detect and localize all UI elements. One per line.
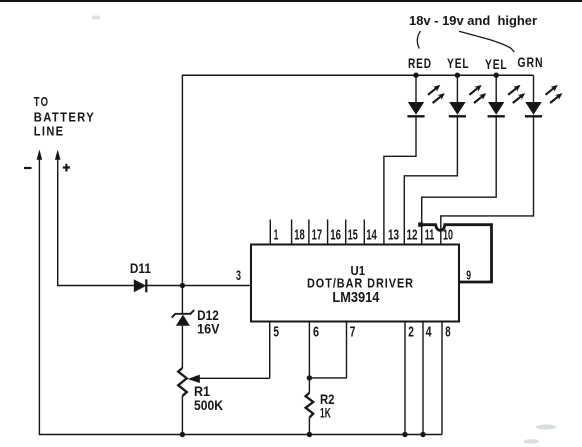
svg-text:4: 4 [426,325,432,341]
LED yellow 2 [488,75,525,116]
svg-text:5: 5 [273,325,279,341]
svg-text:8: 8 [445,325,450,341]
svg-text:13: 13 [388,228,399,244]
svg-text:18v - 19v and higher: 18v - 19v and higher [409,13,537,28]
wire D11 cathode to pin 3 [146,285,251,287]
svg-text:12: 12 [407,228,418,244]
diode D11 [134,279,147,292]
pin 16 stub [327,220,329,245]
label plus sign [63,164,70,172]
wire LED yellow2 cathode to pin 11 [422,116,497,244]
resistor R2 [306,393,314,418]
svg-text:14: 14 [366,228,377,244]
arrowhead positive battery line [55,150,61,160]
svg-text:7: 7 [350,325,356,341]
label TO BATTERY LINE [34,94,95,138]
junction pin 2 ground [402,432,407,437]
pin 6 stub and wire through R2 [308,322,310,435]
label minus sign [24,167,32,169]
svg-text:YEL: YEL [485,56,508,72]
svg-text:YEL: YEL [447,55,470,71]
wire left node vertical (LED bus to D12 to R1 to ground) [181,75,183,434]
pin 15 stub [345,220,347,245]
wire LED anode bus [182,74,534,76]
svg-text:LINE: LINE [34,123,65,138]
svg-text:16: 16 [330,228,341,244]
op-amp U1 LM3914 body [251,245,459,322]
pointer arc right [459,31,514,52]
svg-text:11: 11 [425,228,435,244]
svg-text:6: 6 [313,325,319,341]
LED green [525,75,563,116]
LED red [407,75,445,116]
thick wire pin 11 to pin 9 with hop over pin 10 wire [421,225,492,282]
svg-text:500K: 500K [194,397,223,413]
svg-text:TO: TO [34,94,49,109]
pin 7 stub and wire to pin 6 [312,322,347,378]
arrowhead negative battery line [37,150,43,160]
wiper arrow R1 (from pin 5) [188,375,270,383]
pin 4 wire to ground bus [422,322,424,435]
svg-text:15: 15 [348,228,358,244]
pin 17 stub [308,220,310,245]
zener diode D12 [172,310,195,326]
junction node D11 / pin3 / D12 [180,283,185,288]
wire LED red cathode to pin 13 [384,116,416,244]
wire LED green cathode to pin 10 [441,116,534,244]
svg-text:16V: 16V [197,320,220,336]
junction LED red anode [413,73,418,78]
junction R1 bottom on ground bus [180,432,185,437]
LED yellow 1 [449,75,487,116]
svg-text:9: 9 [466,268,471,283]
svg-text:3: 3 [236,268,241,283]
svg-text:D11: D11 [130,260,151,276]
pointer arc left [417,31,420,49]
svg-text:1: 1 [274,228,279,244]
junction LED yellow2 anode [494,73,499,78]
junction square pin 11 top [418,222,423,226]
svg-text:10: 10 [443,228,453,244]
pin 14 stub [363,220,365,245]
potentiometer R1 [178,368,187,396]
svg-text:18: 18 [294,228,305,244]
junction LED yellow1 anode [455,73,460,78]
svg-text:17: 17 [312,228,323,244]
pin 5 stub and wire to R1 wiper [269,322,271,379]
svg-text:BATTERY: BATTERY [34,109,95,124]
wire negative battery line with ground bus [39,152,442,435]
svg-text:1K: 1K [320,405,331,421]
svg-text:RED: RED [408,55,432,71]
wire LED yellow1 cathode to pin 12 [404,116,457,244]
wire positive battery line to D11 anode [58,152,134,286]
svg-text:GRN: GRN [517,55,543,70]
pin 1 stub [269,220,271,245]
pin 8 wire to ground bus [441,322,443,435]
pin 2 wire to ground bus [404,322,406,435]
junction pins 6 and 7 [307,375,312,380]
svg-text:2: 2 [408,325,414,341]
junction pin 4 ground [420,432,425,437]
pin 18 stub [291,220,293,245]
svg-text:LM3914: LM3914 [332,289,380,306]
junction R2 bottom on ground bus [307,432,312,437]
